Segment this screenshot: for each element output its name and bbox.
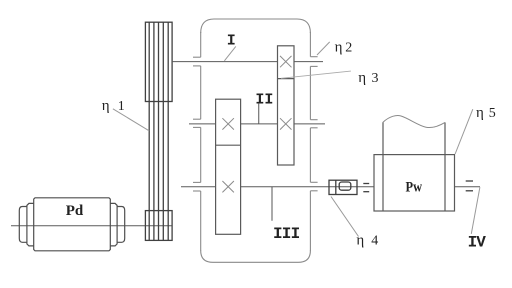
label eta4 with leader: [331, 197, 359, 237]
svg-text:3: 3: [372, 71, 379, 86]
belt (5 strands): [149, 22, 168, 240]
bearing on shaft III right wall: [310, 182, 317, 191]
label I with leader: [224, 46, 235, 60]
gear block on shafts II/III (first stage big gear + second stage pinion): [216, 99, 241, 234]
break marks between coupling and machine: [363, 184, 369, 192]
gear cross pinion on shaft II: [222, 118, 234, 129]
working machine Pw: [374, 116, 455, 211]
gear block on shafts I/II (first stage pinion + big gear): [278, 46, 295, 165]
shaft I: [172, 61, 323, 63]
svg-text:2: 2: [345, 41, 352, 56]
gear cross on shaft III: [222, 181, 234, 192]
svg-text:Pd: Pd: [66, 203, 84, 219]
bearing on shaft I right wall: [310, 57, 317, 67]
gear cross big gear on shaft II: [280, 118, 292, 129]
bearing on shaft I left wall: [193, 57, 201, 66]
svg-text:η: η: [335, 40, 343, 56]
label IV with leader: [471, 187, 480, 234]
bearing on shaft II left wall: [193, 119, 201, 127]
break marks right of machine: [466, 181, 473, 191]
machine shaft IV stub: [455, 186, 481, 188]
svg-text:1: 1: [118, 99, 125, 114]
svg-text:I: I: [227, 33, 236, 50]
svg-text:η: η: [102, 98, 110, 114]
label eta1 with leader: [113, 109, 149, 131]
svg-text:η: η: [356, 233, 364, 249]
bearing on shaft II right wall: [310, 120, 317, 128]
svg-text:II: II: [255, 91, 273, 108]
svg-text:η: η: [358, 70, 366, 86]
coupling: [329, 180, 357, 194]
label eta2 with leader: [317, 42, 330, 55]
shaft II: [189, 123, 325, 125]
shaft III: [181, 186, 374, 188]
big pulley on shaft I: [145, 22, 172, 101]
label II with leader: [258, 104, 260, 124]
svg-text:III: III: [273, 225, 300, 243]
label eta5 with leader: [455, 109, 473, 154]
svg-text:Pw: Pw: [406, 180, 423, 196]
motor shaft: [11, 225, 172, 227]
svg-text:IV: IV: [468, 233, 487, 251]
motor Pd body: [19, 198, 124, 251]
svg-text:η: η: [476, 105, 484, 121]
svg-text:4: 4: [371, 234, 378, 249]
gear cross on shaft I: [280, 56, 292, 67]
svg-text:5: 5: [489, 106, 496, 121]
gearbox housing outline: [201, 19, 311, 262]
label eta3 with leader: [281, 71, 351, 78]
small pulley on motor shaft: [145, 211, 172, 241]
label III with leader: [271, 187, 273, 221]
bearing on shaft III left wall: [193, 182, 201, 191]
